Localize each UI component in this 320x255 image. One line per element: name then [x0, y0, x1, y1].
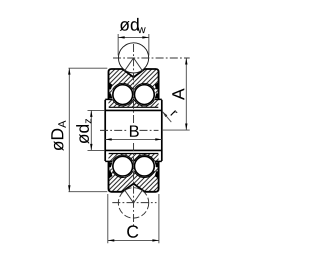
contact angle lines top	[124, 58, 143, 72]
ball upper-left	[113, 85, 133, 105]
bore bottom edge	[105, 149, 162, 151]
race arcs upper-left ball	[113, 83, 133, 106]
T leader arrow	[162, 111, 167, 117]
outer ring outline upper	[109, 69, 159, 99]
A arrows	[185, 58, 187, 130]
outer ring outline lower	[109, 161, 159, 191]
dimension oDA line	[68, 68, 70, 192]
dimension A line	[185, 58, 187, 130]
dimension odz line	[90, 110, 92, 150]
dimension odw line	[118, 36, 149, 38]
bore top edge	[105, 109, 162, 111]
inner ring shoulder line upper	[105, 98, 162, 100]
C arrows	[108, 239, 159, 241]
dimension C line	[108, 239, 159, 241]
contact angle lines bottom	[124, 190, 143, 203]
axis extension line right (for A)	[162, 129, 190, 131]
dimension B line	[105, 138, 162, 140]
top circle horizontal centerline	[113, 57, 190, 59]
horizontal axis centerline	[100, 129, 127, 131]
inner ring left face	[104, 100, 106, 161]
track shaft circle bottom (phantom)	[118, 188, 148, 218]
raceway shoulder line lower	[109, 153, 159, 155]
outer ring lower section (hatched)	[109, 154, 159, 192]
race arcs lower-left ball	[113, 155, 133, 178]
label odz	[76, 119, 91, 144]
raceway shoulder line upper	[109, 106, 159, 108]
dimension odz extension lines	[88, 110, 105, 150]
ball upper-right	[134, 85, 154, 105]
label B	[130, 125, 139, 136]
oDA arrows	[68, 68, 70, 192]
outer ring upper section (hatched)	[109, 69, 159, 107]
label C	[127, 225, 138, 237]
odz arrows	[90, 110, 92, 150]
dimension oDA extension lines	[69, 68, 108, 192]
B arrows	[105, 138, 162, 140]
bottom circle horizontal centerline	[112, 202, 156, 204]
track shaft circle top (odw)	[118, 43, 148, 73]
label oDA	[51, 121, 66, 151]
vertical centerline	[133, 44, 135, 123]
inner ring shoulder line lower	[105, 160, 162, 162]
dimension C extension lines	[108, 194, 159, 243]
dimension odw extension lines	[118, 34, 149, 56]
ball lower-left	[113, 156, 133, 176]
seal lower-right	[155, 162, 159, 179]
label odw	[120, 18, 146, 33]
label T	[170, 110, 177, 117]
inner ring right face	[161, 100, 163, 161]
ball lower-right	[134, 156, 154, 176]
race arcs upper-right ball	[134, 83, 154, 106]
seal lower-left	[108, 162, 112, 179]
seal upper-left	[108, 82, 112, 99]
label A	[172, 88, 184, 100]
seal upper-right	[155, 82, 159, 99]
raceway clearance (white) around balls	[111, 83, 134, 106]
odw arrows	[118, 36, 149, 38]
race arcs lower-right ball	[134, 155, 154, 178]
